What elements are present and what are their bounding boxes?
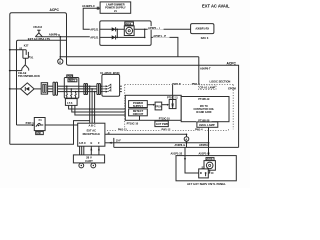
svg-text:A56P8-T: A56P8-T xyxy=(200,67,211,71)
wire f (EXT AC PBA LTS feed) xyxy=(36,36,100,38)
svg-text:AFT EXT SERV CNTL PANEL: AFT EXT SERV CNTL PANEL xyxy=(187,182,226,186)
svg-text:AVAIL LAMP: AVAIL LAMP xyxy=(199,123,215,127)
wire AP3P1-P to logic section xyxy=(151,37,178,56)
svg-text:CONTACTOR COIL: CONTACTOR COIL xyxy=(194,108,215,111)
svg-text:FPGA: FPGA xyxy=(155,105,162,108)
svg-text:EXT AC PBA LTS: EXT AC PBA LTS xyxy=(28,37,50,41)
connector line J5 xyxy=(113,138,115,148)
svg-text:ACPC: ACPC xyxy=(50,8,60,12)
fuse F4 box xyxy=(34,118,45,131)
svg-text:4 5 6: 4 5 6 xyxy=(67,102,73,105)
svg-text:AP3P1 - P: AP3P1 - P xyxy=(153,34,166,38)
svg-text:PBE3: PBE3 xyxy=(69,81,76,83)
node rail 3-phase xyxy=(9,88,11,90)
ammeter A ext pwr xyxy=(184,137,189,142)
wire f inside xyxy=(100,36,145,38)
diode box PT10C-11 xyxy=(167,97,178,109)
arrow detect to fpga xyxy=(147,104,153,106)
wire lamp dimmer to AVAIL lamp assy xyxy=(83,8,100,29)
svg-text:EM3: EM3 xyxy=(68,76,73,78)
ACPC bottom-left boundary xyxy=(10,121,90,145)
svg-text:ACPC: ACPC xyxy=(227,62,237,66)
external power cart xyxy=(73,155,104,168)
3-phase wires to connector xyxy=(48,86,53,91)
svg-text:A30BP1-RX: A30BP1-RX xyxy=(195,28,209,31)
wire receptacle F to stub box xyxy=(105,142,114,144)
svg-text:EM1: EM1 xyxy=(37,132,43,135)
nodes EM3 taps xyxy=(66,85,68,87)
svg-text:CR-A1 LAMP: CR-A1 LAMP xyxy=(200,85,216,89)
svg-text:PW2-D: PW2-D xyxy=(172,82,181,86)
svg-text:AP3P1 - i: AP3P1 - i xyxy=(148,26,160,30)
dashed PW1 row xyxy=(107,128,228,130)
label AVAIL LAMP box xyxy=(197,122,218,127)
svg-text:A51P1-32: A51P1-32 xyxy=(171,152,183,156)
svg-text:A51P1-W: A51P1-W xyxy=(199,152,211,156)
svg-text:LOGIC SECTION: LOGIC SECTION xyxy=(210,79,231,83)
AVAIL lamp assembly box xyxy=(100,21,151,46)
svg-text:A56P8-m: A56P8-m xyxy=(175,144,186,147)
detect circuit box xyxy=(129,109,148,116)
dashed box CR-A1 LAMP xyxy=(199,85,216,90)
wire diode to transformer xyxy=(34,88,41,90)
power supply box xyxy=(129,101,148,108)
wire from node A56P8-g to logic section xyxy=(60,56,199,58)
terminal box 4 5 6 xyxy=(65,99,77,106)
wire A51P1-32 into panel xyxy=(185,156,199,173)
svg-text:PW1-12: PW1-12 xyxy=(162,128,171,131)
transformer box xyxy=(41,83,47,94)
wire g inside xyxy=(100,28,151,30)
wire F to ACPC xyxy=(114,142,210,144)
3-phase wires through EM3 xyxy=(64,86,79,91)
diode CR (diamond) xyxy=(21,83,35,95)
svg-text:CIRCUIT: CIRCUIT xyxy=(133,112,144,116)
box EXT AC PBA LTS xyxy=(17,40,67,125)
svg-text:A B C: A B C xyxy=(79,141,86,145)
svg-text:EXT AC AVAIL: EXT AC AVAIL xyxy=(202,4,230,9)
FPGA box xyxy=(155,102,162,110)
wire E to ACPC xyxy=(105,133,187,135)
label EM1 xyxy=(36,131,44,135)
svg-text:PT10C-10: PT10C-10 xyxy=(159,118,171,121)
diode on f wire xyxy=(112,35,116,39)
svg-text:PW1-12: PW1-12 xyxy=(118,128,127,131)
lamp AVAIL panel xyxy=(204,158,215,171)
wire ammeter down through panel xyxy=(186,141,188,147)
wire diode up to logic xyxy=(172,85,174,100)
svg-text:EPGM: EPGM xyxy=(228,86,236,90)
svg-text:28 V: 28 V xyxy=(86,156,92,160)
nodes sense bus xyxy=(89,108,91,110)
lamp AVAIL xyxy=(124,22,134,36)
lamp dimmer power supply box xyxy=(100,2,131,13)
svg-text:28V TO: 28V TO xyxy=(200,106,208,108)
node g-f tie left xyxy=(117,29,119,31)
3-phase wires to EM3 xyxy=(58,86,65,91)
wire rail to K27 X2 xyxy=(10,49,26,51)
wire rail to CB-A9 xyxy=(10,70,22,72)
box A30BP1-RX xyxy=(191,24,214,41)
wire AP3P1-i to DAU xyxy=(151,28,191,30)
svg-text:A14BP1-C: A14BP1-C xyxy=(82,4,95,8)
relay K27 coil xyxy=(19,45,34,60)
svg-text:K27: K27 xyxy=(24,45,29,48)
connector pair 1 xyxy=(53,82,58,95)
node A56P8-g junction xyxy=(59,36,61,38)
EPGM card box 2 xyxy=(181,97,229,123)
svg-text:A B C: A B C xyxy=(89,124,96,128)
svg-text:CART: CART xyxy=(85,159,93,163)
svg-text:SUPPLY: SUPPLY xyxy=(133,104,144,108)
svg-text:E: E xyxy=(91,141,93,145)
wire f into lamp assy xyxy=(90,35,102,39)
svg-text:PT10C-10: PT10C-10 xyxy=(127,121,139,125)
svg-text:A56P8-g: A56P8-g xyxy=(49,33,60,37)
wire F4 to receptacle xyxy=(45,124,78,126)
wires 4 5 6 down to bus xyxy=(69,105,129,115)
label AP3J1-g xyxy=(90,27,103,31)
svg-text:EXT PWR: EXT PWR xyxy=(156,122,168,126)
wires receptacle to cart xyxy=(80,146,99,155)
connector pair 3 xyxy=(97,84,101,95)
svg-text:EXT AC: EXT AC xyxy=(87,129,97,133)
label P407-13 xyxy=(25,121,35,125)
wire S2 to lamp xyxy=(208,170,209,173)
node rail-X2 xyxy=(9,49,11,51)
wire rail to diode CR xyxy=(10,88,21,90)
wire F4 feed xyxy=(17,124,35,126)
wire E junction to ammeter xyxy=(186,134,188,136)
svg-text:PW1-4: PW1-4 xyxy=(195,128,203,131)
label EXT PWR box xyxy=(155,121,168,127)
svg-text:DAU 3: DAU 3 xyxy=(201,37,209,40)
aft ext serv cntl panel box xyxy=(176,156,236,181)
ACPC border bottom right xyxy=(114,146,239,148)
diode on g wire xyxy=(112,27,116,31)
svg-text:RECEPTACLE: RECEPTACLE xyxy=(83,132,101,136)
box EXT AC RECEPTACLE xyxy=(78,123,110,146)
wire to ammeter xyxy=(59,37,61,59)
logic section dashed boundary xyxy=(125,85,234,130)
svg-text:J5-F: J5-F xyxy=(116,140,121,143)
svg-text:A56P8-R: A56P8-R xyxy=(199,144,209,147)
wires 3-phase down to receptacle xyxy=(90,86,95,123)
svg-text:CB:A12: CB:A12 xyxy=(33,26,42,29)
contactor K1 xyxy=(100,72,122,96)
arrow fpga to diode xyxy=(162,104,168,106)
box EM3 xyxy=(64,75,79,98)
EPGM card box 1 xyxy=(125,95,181,120)
connector pair 2 xyxy=(84,84,88,95)
switch S2 xyxy=(199,166,209,178)
svg-text:IN GND CARD: IN GND CARD xyxy=(196,111,212,114)
node rail CB-A9 xyxy=(9,70,11,72)
3-phase wires EM3 to K1 xyxy=(79,86,102,91)
circuit breaker CB:A12 xyxy=(33,26,42,37)
nodes 3-phase taps down xyxy=(89,85,91,87)
circuit breaker CB-A9 xyxy=(18,58,40,78)
fuse taps inside EM3 xyxy=(66,86,77,98)
wire down to A56P8-T xyxy=(198,57,200,85)
svg-text:PT10B-19: PT10B-19 xyxy=(198,98,210,101)
node output tie right xyxy=(144,29,146,31)
svg-text:AVAIL: AVAIL xyxy=(125,23,132,26)
wire avail lamp down xyxy=(208,127,210,157)
ammeter A xyxy=(58,59,63,64)
svg-text:TRU INTERLOCK: TRU INTERLOCK xyxy=(18,74,40,78)
ACPC boundary outline (snake) xyxy=(10,13,239,148)
